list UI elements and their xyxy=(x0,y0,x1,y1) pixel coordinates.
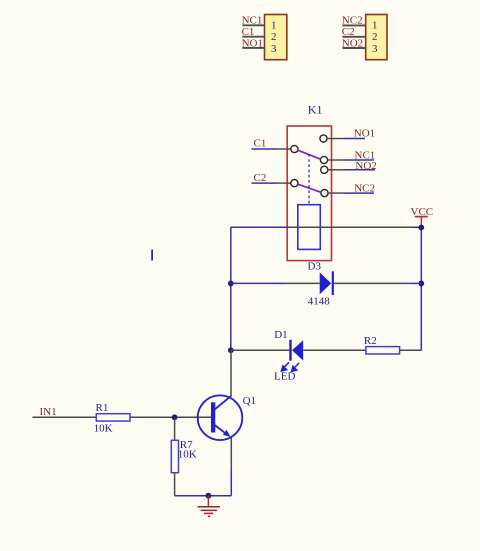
wire R7 top stub (dark) xyxy=(174,417,176,440)
relay contact circle NO2 xyxy=(321,166,328,173)
ground bar 4 xyxy=(208,515,210,517)
junction left/LED row xyxy=(228,347,234,353)
relay contact circle NO1 xyxy=(320,135,327,142)
pin C2 stub xyxy=(276,182,291,184)
transistor Q1 circle xyxy=(198,395,243,440)
svg-text:10K: 10K xyxy=(178,449,197,461)
junction left/D3 xyxy=(228,281,234,287)
wire LED row left (dark) xyxy=(231,349,289,351)
svg-text:K1: K1 xyxy=(308,102,323,116)
svg-text:C1: C1 xyxy=(242,26,255,38)
LED D1 cathode bar xyxy=(289,340,291,361)
diode D3 cathode bar xyxy=(332,271,334,295)
wire D3 row left (navy) xyxy=(231,282,285,284)
wire emitter down (navy) xyxy=(230,470,232,496)
svg-text:Q1: Q1 xyxy=(243,395,256,407)
junction ground xyxy=(206,493,212,499)
relay armature C1-NC1 xyxy=(298,150,321,159)
svg-text:R2: R2 xyxy=(364,335,377,347)
ground bar 1 xyxy=(198,506,221,508)
pin C1 stub xyxy=(276,148,291,150)
wire R1 to base node (dark) xyxy=(130,416,211,418)
connector P1 pin 1 stub xyxy=(242,24,264,26)
LED emission arrow 2 xyxy=(292,363,300,372)
wire coil row left (navy) xyxy=(231,226,288,228)
relay contact circle NC1 xyxy=(320,156,327,163)
wire NC1 net xyxy=(343,159,374,161)
wire C1 net xyxy=(252,148,277,150)
pin D3 cathode (dark) xyxy=(334,282,410,284)
wire NO2 net xyxy=(343,169,375,171)
wire D3 row right (navy) xyxy=(410,282,421,284)
wire C2 net xyxy=(252,182,277,184)
svg-text:4148: 4148 xyxy=(308,295,331,307)
wire VCC vertical xyxy=(420,228,422,351)
svg-text:NC2: NC2 xyxy=(354,182,375,194)
pin D3 anode (dark) xyxy=(285,282,320,284)
wire left vertical (coil to LED row) xyxy=(230,227,232,350)
pin NC1 stub xyxy=(328,159,343,161)
relay coil rectangle xyxy=(298,205,321,250)
connector P2 pin 2 stub xyxy=(342,36,365,38)
wire coil row right (navy) xyxy=(412,226,421,228)
diode D3 triangle xyxy=(320,272,332,294)
svg-text:R1: R1 xyxy=(96,402,109,414)
wire IN1 to R1 (dark) xyxy=(33,416,97,418)
resistor R2 body xyxy=(366,347,400,354)
connector P1 body xyxy=(265,15,287,60)
svg-text:2: 2 xyxy=(271,31,277,43)
svg-text:NC1: NC1 xyxy=(242,15,263,27)
svg-text:NO2: NO2 xyxy=(355,160,376,172)
junction VCC/D3 xyxy=(418,281,424,287)
pin NO2 stub xyxy=(328,169,343,171)
transistor Q1 emitter arrowhead xyxy=(223,430,231,437)
relay armature C2-NC2 xyxy=(298,184,321,192)
pin Q1 emitter stub (dark) xyxy=(230,438,232,471)
relay contact circle C1 xyxy=(291,145,298,152)
power symbol VCC bar xyxy=(415,216,428,218)
svg-text:NO1: NO1 xyxy=(354,128,375,140)
connector P1 pin 2 stub xyxy=(242,36,264,38)
junction base/R7 xyxy=(172,414,178,420)
wire LED to R2 (dark) xyxy=(303,349,366,351)
LED D1 triangle xyxy=(292,340,303,360)
wire NC2 net xyxy=(343,192,374,194)
svg-text:2: 2 xyxy=(372,31,378,43)
relay actuation dashed link xyxy=(308,154,310,205)
svg-text:C2: C2 xyxy=(342,26,355,38)
svg-text:C1: C1 xyxy=(254,138,267,150)
svg-text:D3: D3 xyxy=(308,261,322,273)
svg-text:1: 1 xyxy=(372,20,378,32)
connector P1 pin 3 stub xyxy=(242,47,264,49)
svg-text:NO1: NO1 xyxy=(242,37,263,49)
resistor R7 body xyxy=(171,440,178,472)
wire R7 bottom stub (dark) xyxy=(174,473,176,496)
svg-text:1: 1 xyxy=(271,20,277,32)
text cursor mark xyxy=(151,250,153,261)
power symbol VCC stem xyxy=(420,217,422,228)
transistor Q1 base bar xyxy=(211,402,215,432)
connector P2 pin 3 stub xyxy=(342,47,365,49)
wire coil row through relay (dark) xyxy=(287,226,412,228)
junction at VCC xyxy=(418,225,424,231)
ground bar 2 xyxy=(201,509,217,511)
relay K1 body outline xyxy=(287,126,331,261)
svg-text:3: 3 xyxy=(271,43,277,55)
transistor Q1 collector diagonal xyxy=(214,396,231,410)
wire bottom rail (navy) xyxy=(175,495,232,497)
connector P2 pin 1 stub xyxy=(342,24,365,26)
svg-text:NO2: NO2 xyxy=(342,37,363,49)
connector P2 body xyxy=(366,15,387,60)
pin Q1 collector stub (dark) xyxy=(230,350,232,396)
relay contact circle NC2 xyxy=(321,190,328,197)
svg-text:10K: 10K xyxy=(94,422,113,434)
ground stem xyxy=(207,496,209,507)
wire R2 to corner (dark) xyxy=(400,349,422,351)
svg-text:NC2: NC2 xyxy=(342,15,363,27)
svg-text:C2: C2 xyxy=(254,172,267,184)
pin NC2 stub xyxy=(328,192,343,194)
ground bar 3 xyxy=(204,512,213,514)
svg-text:IN1: IN1 xyxy=(40,406,57,418)
transistor Q1 emitter diagonal xyxy=(214,425,228,435)
LED emission arrow 1 xyxy=(281,362,289,371)
resistor R1 body xyxy=(96,414,130,421)
pin NO1 stub xyxy=(327,138,343,140)
svg-text:3: 3 xyxy=(372,43,378,55)
svg-text:D1: D1 xyxy=(274,329,287,341)
relay contact circle C2 xyxy=(291,180,298,187)
wire NO1 net xyxy=(343,138,365,140)
svg-text:LED: LED xyxy=(274,371,295,383)
